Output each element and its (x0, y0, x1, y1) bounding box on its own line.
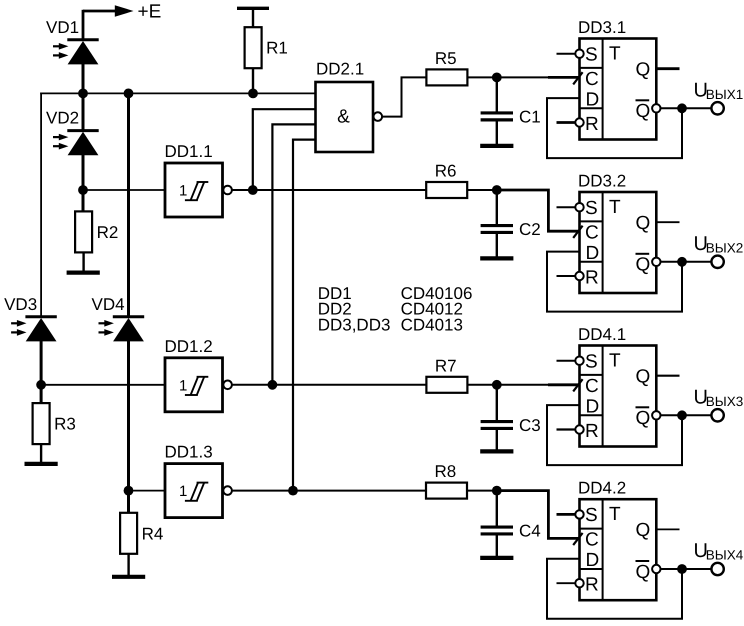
svg-text:D: D (586, 550, 600, 571)
pin R stub of DD4.1 (557, 428, 576, 430)
svg-text:VD1: VD1 (46, 18, 79, 37)
wire DD1.1 output to R6 row (232, 189, 426, 191)
resistor R2 (75, 211, 118, 252)
svg-text:VD4: VD4 (92, 295, 125, 314)
pin S bubble of DD3.2 (575, 203, 583, 211)
wire riser DD1.3 output to DD2.1 pin 4 (293, 140, 317, 491)
wire +E to VD1 (82, 10, 85, 39)
svg-text:DD4.2: DD4.2 (578, 479, 626, 498)
svg-text:S: S (585, 352, 598, 373)
ground under C2 (480, 256, 513, 260)
wire Q-bar output of DD3.2 (661, 261, 712, 263)
pin Q output stub of DD4.2 (656, 528, 679, 530)
svg-text:C: C (585, 223, 599, 244)
wire down to C4 (496, 491, 498, 527)
Schmitt trigger DD1.1 (165, 142, 232, 217)
svg-text:T: T (609, 351, 621, 372)
pin S bubble of DD4.1 (575, 357, 583, 365)
wire Q-bar feedback loop to D input of DD3.2 (547, 252, 682, 312)
svg-text:D: D (586, 243, 600, 264)
svg-text:T: T (609, 44, 621, 65)
junction dot DD1.1 output (248, 185, 258, 195)
wire DD2.1 output to R5 (382, 77, 426, 116)
output terminal UВЫХ2 (711, 256, 723, 268)
junction dot R8/C4 (492, 486, 502, 496)
pin R stub of DD3.2 (557, 275, 576, 277)
svg-text:C2: C2 (519, 220, 541, 239)
output terminal UВЫХ3 (711, 409, 723, 421)
svg-text:R: R (585, 114, 599, 135)
svg-text:C4: C4 (519, 522, 541, 541)
pin Q output stub of DD3.2 (656, 221, 679, 223)
pin R bubble of DD3.1 (575, 118, 583, 126)
svg-text:C: C (585, 530, 599, 551)
wire Q-bar output of DD4.1 (661, 414, 712, 416)
svg-text:C3: C3 (519, 416, 541, 435)
pin C dynamic-input mark of DD4.2 (573, 533, 582, 545)
ground under R2 (67, 271, 100, 275)
photodiode VD1 (46, 18, 99, 65)
NAND gate DD2.1 (316, 60, 374, 153)
D flip-flop DD3.1 (578, 18, 656, 140)
D flip-flop DD4.2 (578, 479, 656, 601)
pin Q-bar bubble of DD4.2 (652, 565, 660, 573)
label UВЫХ4 (694, 540, 744, 562)
wire VD1 anode to bus (82, 64, 85, 131)
wire C2 to ground (496, 233, 498, 256)
svg-text:ВЫХ2: ВЫХ2 (706, 240, 743, 255)
wire R8 to C4 node (467, 490, 497, 492)
wire VD3 anode to R3 (40, 341, 43, 405)
svg-text:S: S (585, 198, 598, 219)
svg-text:T: T (609, 197, 621, 218)
pin Q-bar bubble of DD3.2 (652, 258, 660, 266)
wire C3 to ground (496, 429, 498, 449)
power bar above R1 (237, 7, 269, 10)
wire C4 node to DD4.2 C input (497, 491, 580, 539)
wire DD1.1 input from VD2 node (83, 189, 165, 191)
pin Q-bar bubble of DD4.1 (652, 411, 660, 419)
wire VD4 branch down from bus (127, 93, 130, 317)
wire C1 to ground (496, 121, 498, 145)
svg-text:+E: +E (138, 2, 162, 23)
wire down to C3 (496, 385, 498, 421)
photodiode VD2 (46, 109, 99, 156)
wire riser DD1.2 output to DD2.1 pin 3 (272, 124, 316, 384)
D flip-flop DD3.2 (578, 172, 656, 294)
wire DD1.3 input from VD4 node (129, 490, 166, 492)
pin Q output stub of DD3.1 (656, 67, 679, 70)
wire down to C2 (496, 190, 498, 225)
power rail +E symbol (83, 2, 161, 23)
pin S bubble of DD4.2 (575, 510, 583, 518)
junction dot VD4/R4/DD1.3 node (124, 486, 134, 496)
pin S stub of DD4.1 (557, 360, 576, 362)
svg-text:VD2: VD2 (46, 109, 79, 128)
svg-text:DD1.2: DD1.2 (165, 337, 213, 356)
wire bus VD1-VD2 node (horizontal) (40, 92, 316, 94)
svg-text:R: R (585, 267, 599, 288)
junction dot bus/VD4 branch (124, 89, 134, 99)
resistor R8 (426, 462, 467, 499)
label UВЫХ2 (694, 233, 744, 255)
wire R6 to C2 node (467, 189, 497, 191)
wire DD1.2 output to R7 row (232, 384, 427, 386)
pin R stub of DD3.1 (557, 121, 576, 124)
svg-text:R3: R3 (54, 415, 76, 434)
svg-text:VD3: VD3 (4, 295, 37, 314)
svg-text:S: S (585, 505, 598, 526)
junction dot DD1.3 output (288, 486, 298, 496)
wire Q-bar feedback loop to D input of DD3.1 (547, 98, 682, 158)
svg-text:D: D (586, 397, 600, 418)
wire R7 to C3 node (467, 384, 548, 386)
junction dot Q-bar node of DD4.2 (677, 564, 687, 574)
Schmitt trigger DD1.3 (165, 443, 232, 518)
pin C dynamic-input mark of DD3.1 (573, 72, 582, 84)
parts list text block (318, 284, 473, 334)
junction dot VD2/R2/DD1.1 node (78, 185, 88, 195)
svg-text:R7: R7 (435, 356, 457, 375)
svg-text:R6: R6 (435, 162, 457, 181)
svg-text:R8: R8 (435, 462, 457, 481)
svg-text:ВЫХ3: ВЫХ3 (706, 394, 743, 409)
wire riser DD1.1 output to DD2.1 pin 2 (253, 109, 317, 190)
svg-text:Q: Q (636, 101, 651, 122)
svg-text:Q: Q (636, 367, 651, 388)
svg-text:DD1.1: DD1.1 (165, 142, 213, 161)
D flip-flop DD4.1 (578, 325, 656, 447)
output terminal UВЫХ4 (711, 563, 723, 575)
svg-text:1: 1 (179, 377, 187, 394)
pin Q output stub of DD4.1 (656, 375, 679, 377)
wire R2 to ground (82, 252, 84, 271)
svg-text:Q: Q (636, 408, 651, 429)
junction dot Q-bar node of DD3.2 (677, 257, 687, 267)
pin C dynamic-input mark of DD4.1 (573, 379, 582, 391)
wire VD4 anode to R4 (127, 341, 130, 514)
svg-text:T: T (609, 504, 621, 525)
resistor R1 (245, 27, 288, 68)
wire DD1.3 output to R8 row (232, 490, 426, 492)
wire C3 node to DD4.1 C input (548, 383, 580, 386)
wire R5 to C1 node (467, 76, 548, 78)
photodiode VD4 (92, 295, 145, 342)
wire Q-bar output of DD4.2 (661, 568, 712, 570)
capacitor C2 (481, 220, 541, 239)
DD2.1 output bubble (374, 112, 383, 121)
wire C1 node to DD3.1 C input (548, 76, 580, 79)
svg-text:Q: Q (636, 213, 651, 234)
svg-text:DD2.1: DD2.1 (316, 60, 364, 79)
junction dot Q-bar node of DD4.1 (677, 410, 687, 420)
resistor R7 (426, 356, 467, 393)
svg-text:DD1.3: DD1.3 (165, 443, 213, 462)
junction dot Q-bar node of DD3.1 (677, 103, 687, 113)
wire Q-bar feedback loop to D input of DD4.2 (547, 559, 682, 619)
junction dot bus/VD1 (78, 89, 88, 99)
svg-text:DD3.1: DD3.1 (578, 18, 626, 37)
wire R3 to ground (40, 444, 42, 463)
svg-text:Q: Q (636, 520, 651, 541)
svg-text:ВЫХ1: ВЫХ1 (706, 87, 743, 102)
svg-text:CD4013: CD4013 (401, 315, 463, 334)
pin S stub of DD3.1 (557, 53, 576, 55)
svg-text:DD4.1: DD4.1 (578, 325, 626, 344)
pin C dynamic-input mark of DD3.2 (573, 226, 582, 238)
wire down to C1 (496, 77, 498, 112)
capacitor C3 (481, 416, 541, 435)
svg-text:C1: C1 (519, 107, 541, 126)
svg-text:&: & (337, 107, 350, 128)
output terminal UВЫХ1 (711, 102, 723, 114)
svg-text:Q: Q (636, 255, 651, 276)
label UВЫХ1 (694, 80, 744, 102)
ground under R3 (25, 462, 58, 466)
svg-text:Q: Q (636, 562, 651, 583)
svg-text:D: D (586, 90, 600, 111)
pin S stub of DD4.2 (557, 513, 576, 516)
ground under C3 (480, 449, 513, 453)
svg-text:C: C (585, 376, 599, 397)
pin S bubble of DD3.1 (575, 50, 583, 58)
svg-text:DD3,DD3: DD3,DD3 (318, 315, 391, 334)
Schmitt trigger DD1.2 (165, 337, 232, 412)
svg-text:R2: R2 (97, 223, 119, 242)
svg-text:ВЫХ4: ВЫХ4 (706, 548, 744, 563)
pin R bubble of DD4.2 (575, 579, 583, 587)
capacitor C1 (481, 107, 541, 126)
junction dot R7/C3 (492, 380, 502, 390)
junction dot bus/R1 (248, 89, 258, 99)
svg-text:R: R (585, 421, 599, 442)
wire left branch down to VD3 (40, 93, 42, 318)
svg-text:R: R (585, 575, 599, 596)
wire Q-bar feedback loop to D input of DD4.1 (547, 405, 682, 465)
pin S stub of DD3.2 (557, 206, 576, 208)
wire power bar to R1 (252, 10, 254, 28)
wire C2 node to DD3.2 C input (497, 190, 580, 231)
resistor R3 (33, 403, 76, 444)
svg-text:R4: R4 (142, 524, 164, 543)
svg-text:DD3.2: DD3.2 (578, 172, 626, 191)
junction dot R6/C2 (492, 185, 502, 195)
pin R bubble of DD4.1 (575, 425, 583, 433)
ground under C1 (480, 144, 513, 148)
svg-text:S: S (585, 45, 598, 66)
pin R stub of DD4.2 (557, 582, 576, 584)
svg-text:R5: R5 (435, 49, 457, 68)
wire C4 to ground (496, 535, 498, 556)
svg-text:R1: R1 (266, 39, 288, 58)
svg-text:1: 1 (179, 483, 187, 500)
capacitor C4 (481, 522, 541, 541)
wire R4 to ground (127, 554, 129, 577)
junction dot R5/C1 (492, 73, 502, 83)
ground under C4 (480, 556, 513, 560)
ground under R4 (112, 575, 145, 579)
wire R1 to bus (252, 68, 254, 93)
photodiode VD3 (4, 295, 57, 342)
resistor R4 (120, 513, 163, 554)
junction dot VD3/R3/DD1.2 node (36, 380, 46, 390)
wire Q-bar output of DD3.1 (661, 107, 712, 109)
svg-text:C: C (585, 69, 599, 90)
wire DD1.2 input from VD3 node (41, 384, 165, 386)
pin Q-bar bubble of DD3.1 (652, 104, 660, 112)
resistor R5 (426, 49, 467, 86)
svg-text:1: 1 (179, 183, 187, 200)
pin R bubble of DD3.2 (575, 272, 583, 280)
wire VD2 anode to R2 (82, 154, 85, 212)
label UВЫХ3 (694, 387, 744, 409)
junction dot DD1.2 output (268, 380, 278, 390)
svg-text:Q: Q (636, 60, 651, 81)
resistor R6 (426, 162, 467, 199)
